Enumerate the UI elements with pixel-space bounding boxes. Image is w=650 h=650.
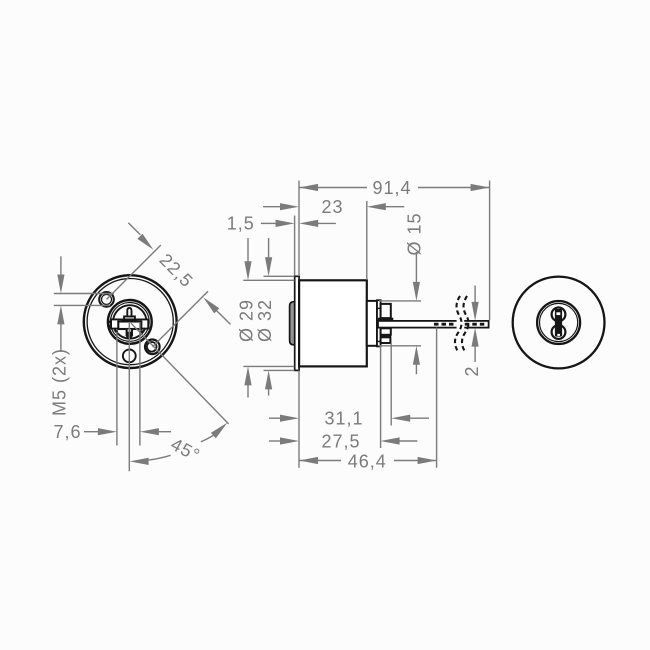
M5 extension line lower	[54, 304, 110, 306]
dim 23 right arrow	[367, 203, 405, 210]
ext line clip down	[390, 343, 392, 426]
ext line 23 right	[366, 201, 368, 280]
dim dia29 top arrow	[244, 238, 251, 280]
ext line plate bottom left	[264, 369, 295, 371]
svg-text:2: 2	[462, 365, 482, 376]
front bezel (grey)	[290, 302, 295, 345]
cam strip	[377, 300, 381, 346]
lower clip rectangle	[381, 328, 391, 335]
lower clip lines	[381, 335, 391, 338]
dim dia15 bottom arrow	[413, 346, 420, 374]
cam tail dark	[126, 329, 133, 338]
dim dia29 bottom arrow	[244, 366, 251, 397]
plug core circle	[113, 305, 146, 338]
ext line plate top left	[264, 275, 295, 277]
svg-text:91,4: 91,4	[372, 178, 411, 198]
cam band left cap	[110, 319, 112, 328]
screw hole M5 lower-right inner	[147, 342, 157, 352]
bottom clip piece	[381, 337, 391, 343]
cylinder outer circle	[84, 275, 177, 368]
hidden dashed line in bar left	[434, 323, 456, 326]
dim 31,1 right arrow	[391, 415, 429, 422]
svg-text:27,5: 27,5	[321, 431, 360, 451]
M5 extension line upper	[54, 293, 114, 295]
dim 22,5 extension line from lower screw	[153, 291, 209, 347]
svg-text:46,4: 46,4	[348, 452, 387, 472]
tailpiece bar	[378, 321, 489, 328]
keyway bar	[555, 309, 562, 337]
dim 7,6 right arrow	[140, 428, 171, 435]
cylinder inner ring	[87, 279, 173, 365]
cam dark trapezoid	[121, 318, 139, 321]
dim dia15 top arrow	[413, 252, 420, 301]
svg-text:M5 (2x): M5 (2x)	[49, 348, 69, 416]
cam tail white notch	[128, 329, 131, 331]
upper clip rectangle	[381, 304, 391, 318]
svg-text:1,5: 1,5	[227, 214, 255, 234]
dim 22,5 upper arrow	[128, 223, 153, 250]
dim 22,5 extension line from upper screw	[107, 245, 161, 299]
ext line 1,5 left face	[294, 216, 296, 276]
break curve 2	[462, 296, 469, 351]
dim dia32 top arrow	[265, 238, 272, 276]
M5 arrow lower	[57, 305, 64, 352]
dim 45 deg arc right part	[201, 435, 214, 442]
svg-text:31,1: 31,1	[324, 409, 363, 429]
body rectangle	[299, 280, 367, 366]
M5 arrow upper	[57, 256, 64, 293]
dim 45 deg arrow at centerline	[130, 458, 149, 465]
dim 45 deg arrow at ray	[211, 423, 227, 439]
ext line dia15 top	[379, 300, 421, 302]
cam wedge right	[140, 330, 144, 335]
dim 45 deg ray	[131, 323, 229, 424]
ext line dia15 bottom	[379, 345, 421, 347]
svg-text:23: 23	[321, 197, 343, 217]
dim 1,5 left arrow	[261, 220, 295, 227]
ext line 91,4 left	[298, 181, 300, 277]
keyway notch bottom	[557, 334, 560, 336]
face plug circle	[537, 301, 580, 344]
face outer circle	[513, 277, 605, 369]
fixing hole bottom	[123, 350, 136, 363]
dim 27,5 right arrow	[381, 437, 418, 444]
svg-text:7,6: 7,6	[53, 422, 81, 442]
keyhole top circle	[552, 308, 566, 322]
screw hole M5 upper-left outer	[99, 292, 114, 307]
dim dia32 bottom arrow	[265, 370, 272, 395]
dim 31,1 left arrow	[269, 415, 299, 422]
svg-text:Ø 32: Ø 32	[255, 299, 275, 342]
dim 2 bottom arrow	[472, 328, 479, 362]
screw hole M5 lower-right outer	[145, 340, 160, 355]
cam band bottom edge	[110, 328, 149, 330]
dim 23 left arrow	[263, 203, 299, 210]
svg-text:Ø 15: Ø 15	[404, 212, 424, 255]
extension line V1	[116, 332, 118, 446]
svg-text:Ø 29: Ø 29	[236, 299, 256, 342]
front plate rectangle	[295, 276, 299, 370]
cam band left detail marks	[109, 321, 111, 323]
key crossbar	[124, 316, 135, 319]
cam strip tick 2	[377, 340, 381, 342]
hidden dashed line in bar right	[465, 323, 486, 326]
ext line front face down	[298, 370, 300, 467]
cam strip tick 1	[377, 307, 381, 309]
clip dark bar	[378, 318, 394, 321]
centerline below plug	[128, 323, 130, 471]
bar break white gap	[457, 320, 465, 329]
dim 46,4 line with arrows	[299, 457, 437, 464]
dim 2 top arrow	[472, 286, 479, 321]
dim 22,5 lower arrow	[203, 297, 230, 324]
ext line cam strip down	[380, 346, 382, 448]
keyhole bottom circle	[552, 325, 566, 339]
neck rectangle	[367, 301, 377, 346]
cam wedge left	[114, 330, 118, 335]
dim 91,4 line with arrows	[299, 184, 490, 191]
ext line bar end down	[436, 328, 438, 468]
keyway notch top	[556, 312, 560, 315]
cam band top edge	[110, 318, 149, 320]
plug inner ring	[110, 303, 149, 342]
ext line body bottom left	[243, 365, 294, 367]
screw hole M5 upper-left inner	[102, 294, 112, 304]
cam band mask	[111, 319, 150, 328]
cam band right cap	[147, 319, 149, 328]
face plug inner ring	[540, 303, 578, 341]
extension line V2	[139, 322, 141, 446]
dim 27,5 left arrow	[269, 437, 299, 444]
ext line 91,4 right	[489, 181, 491, 321]
cam body rectangle	[118, 322, 141, 330]
dim 7,6 left arrow	[84, 428, 117, 435]
break curve 1	[455, 296, 462, 351]
ext line body top left	[243, 279, 294, 281]
dim 1,5 right arrow	[299, 220, 336, 227]
dim 45 deg arc left part	[149, 455, 171, 460]
plug outer circle	[108, 300, 152, 344]
key chimney	[127, 308, 131, 317]
